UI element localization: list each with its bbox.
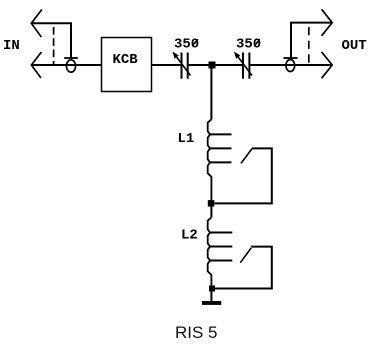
L1 tap 1 xyxy=(210,133,232,135)
capacitor C1 variable arrow xyxy=(173,52,191,76)
connector OUT top arrow xyxy=(322,9,333,36)
svg-text:L1: L1 xyxy=(178,131,195,147)
node A junction xyxy=(209,62,216,69)
wire S1 return to node B xyxy=(215,148,272,203)
svg-text:L2: L2 xyxy=(181,228,198,244)
capacitor C1 plates xyxy=(182,53,188,79)
node B junction xyxy=(208,200,215,207)
connector IN center pin bar xyxy=(64,57,78,59)
connector IN bottom arrow xyxy=(31,52,41,78)
svg-text:350: 350 xyxy=(236,37,261,53)
wire node C to ground xyxy=(210,292,212,302)
wire C1 to node A xyxy=(189,64,209,66)
L1 tap 3 xyxy=(210,161,232,163)
connector IN center pin circle xyxy=(66,60,75,72)
capacitor C2 plates xyxy=(243,53,249,79)
wire S2 return to node C xyxy=(215,247,272,289)
wire IN to KCB xyxy=(31,64,101,66)
wire node A down to L1 xyxy=(210,65,212,119)
svg-text:350: 350 xyxy=(174,37,199,53)
switch S2 blade xyxy=(240,248,251,263)
block KCB box xyxy=(102,38,152,92)
switch S1 blade xyxy=(241,149,252,164)
wire C2 to OUT xyxy=(250,64,332,66)
inductor L1 coil xyxy=(208,119,212,200)
svg-text:RIS 5: RIS 5 xyxy=(175,323,218,342)
L2 tap 2 xyxy=(210,246,232,248)
wire KCB to C1 xyxy=(152,64,181,66)
svg-text:OUT: OUT xyxy=(342,38,367,54)
L1 tap 2 xyxy=(210,147,232,149)
L2 tap 1 xyxy=(210,232,232,234)
svg-text:KCB: KCB xyxy=(113,52,139,68)
node C junction xyxy=(209,286,215,292)
ground xyxy=(202,301,221,305)
connector OUT center pin bar xyxy=(284,57,298,59)
value 350 (C2) xyxy=(236,37,261,53)
connector OUT bottom arrow xyxy=(322,52,333,78)
connector OUT shield dashed line xyxy=(308,23,310,65)
value 350 (C1) xyxy=(174,37,199,53)
connector IN top arrow xyxy=(31,10,42,38)
wire node B down to L2 xyxy=(210,207,212,218)
wire node A to C2 xyxy=(215,64,243,66)
connector IN top link wire xyxy=(31,23,71,58)
connector IN shield dashed line xyxy=(53,23,55,65)
capacitor C2 variable arrow xyxy=(234,52,252,76)
L2 tap 3 xyxy=(210,260,232,262)
svg-text:IN: IN xyxy=(3,38,20,54)
connector OUT top link wire xyxy=(291,23,332,58)
inductor L2 coil xyxy=(208,217,212,285)
connector OUT center pin circle xyxy=(286,60,295,72)
